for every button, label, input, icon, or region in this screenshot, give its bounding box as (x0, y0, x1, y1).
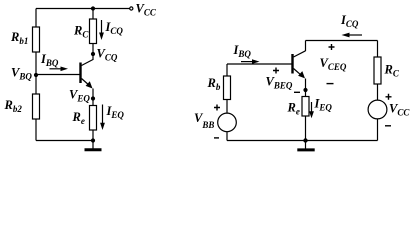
svg-text:IBQ: IBQ (233, 43, 252, 59)
svg-text:IEQ: IEQ (106, 104, 125, 120)
svg-text:Re: Re (287, 101, 300, 117)
svg-text:VCC: VCC (136, 2, 157, 18)
svg-text:VBQ: VBQ (11, 66, 32, 82)
svg-text:VEQ: VEQ (69, 88, 90, 104)
svg-text:Rb1: Rb1 (10, 30, 28, 46)
svg-text:VCC: VCC (389, 102, 410, 118)
svg-text:Rb2: Rb2 (4, 98, 23, 114)
svg-text:VBB: VBB (194, 111, 214, 130)
svg-text:IBQ: IBQ (40, 52, 59, 68)
svg-text:VCEQ: VCEQ (320, 56, 347, 72)
svg-text:VBEQ: VBEQ (266, 75, 293, 91)
svg-text:ICQ: ICQ (105, 20, 124, 36)
svg-text:Re: Re (72, 110, 85, 126)
svg-text:Rb: Rb (207, 76, 221, 92)
svg-text:RC: RC (73, 24, 89, 40)
svg-text:IEQ: IEQ (314, 97, 333, 113)
svg-text:VCQ: VCQ (97, 47, 118, 63)
svg-text:ICQ: ICQ (340, 13, 359, 29)
svg-text:RC: RC (384, 63, 400, 79)
